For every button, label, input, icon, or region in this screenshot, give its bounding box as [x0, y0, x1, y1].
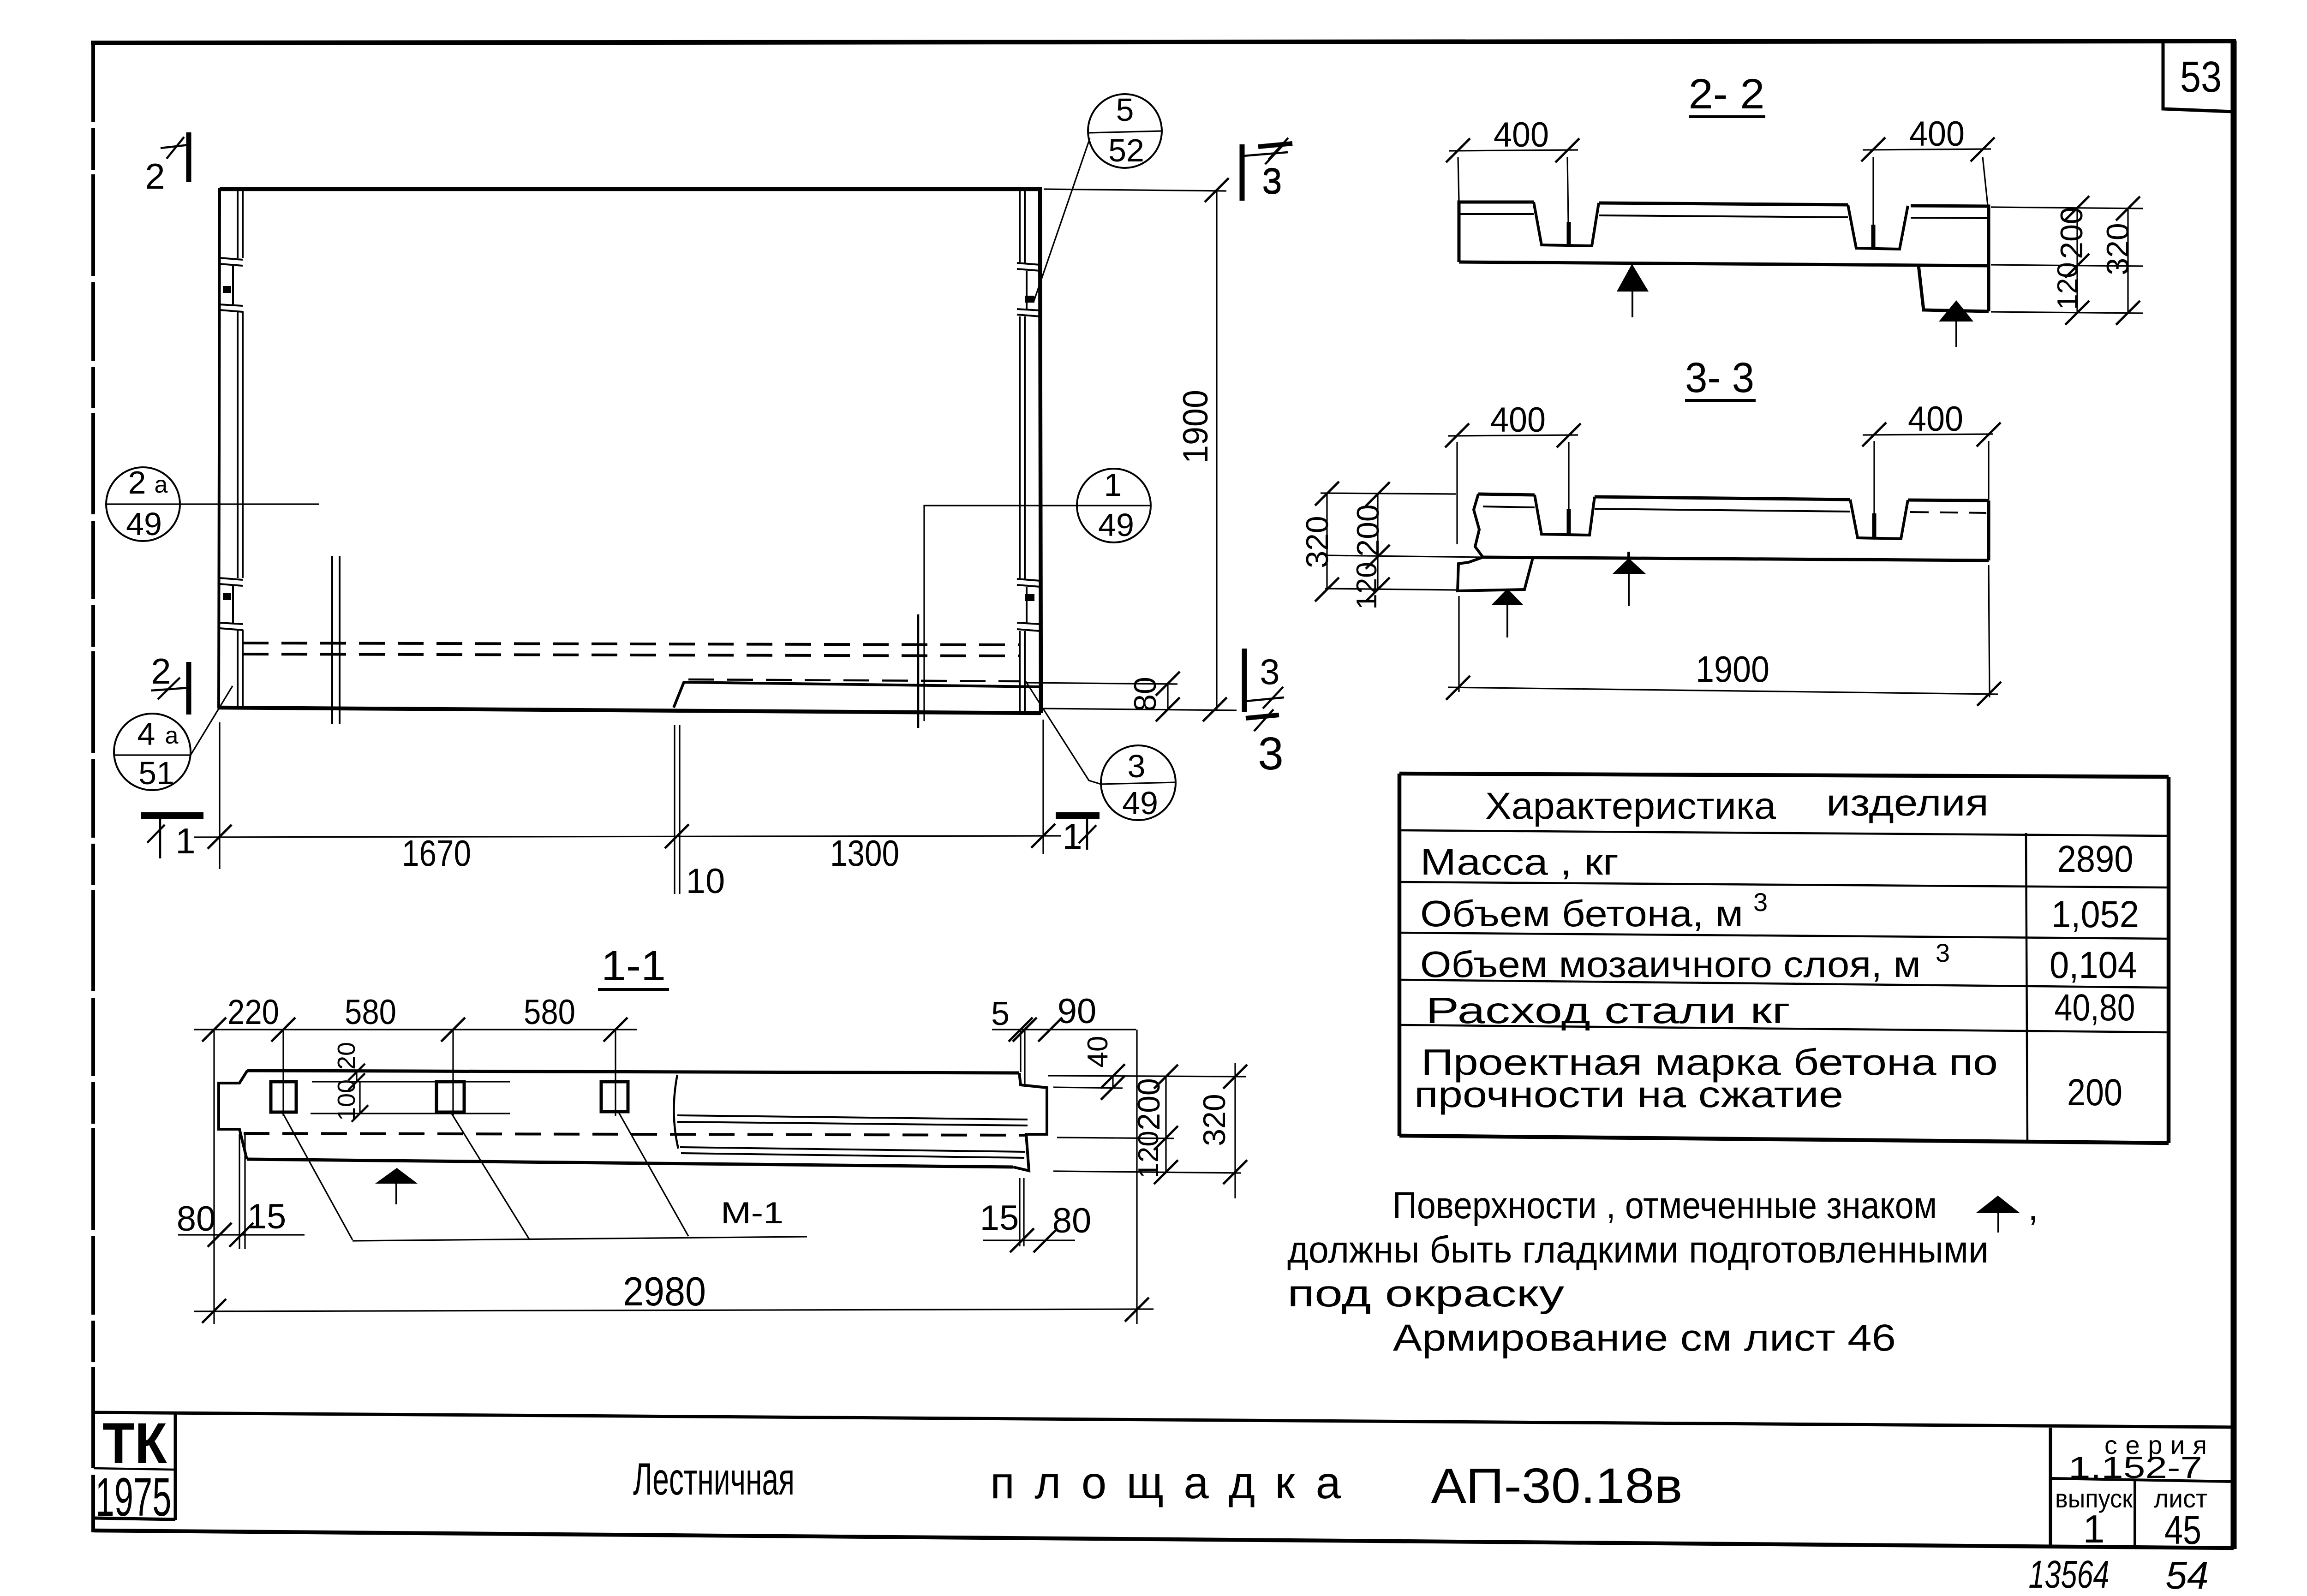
svg-text:49: 49	[1122, 785, 1158, 821]
svg-text:80: 80	[1128, 677, 1163, 712]
svg-text:1900: 1900	[1176, 390, 1215, 464]
section 2-2 right nose	[1919, 265, 1989, 311]
section 1-1 top right dimension line	[992, 1018, 1137, 1324]
section flag 3 left of section 2-2	[1258, 138, 1292, 202]
section 3-3 left break edge	[1474, 494, 1483, 557]
svg-text:1900: 1900	[1696, 649, 1769, 690]
svg-text:1: 1	[2083, 1507, 2104, 1551]
section 3-3 notch 1 anchor tick	[1567, 509, 1571, 534]
section 2-2 dimension 400 right	[1861, 114, 1995, 225]
section 1-1 right dimension 40	[1048, 1036, 1246, 1100]
svg-text:400: 400	[1909, 114, 1965, 154]
left rib lower notch	[220, 578, 243, 630]
section 3-3 support triangle middle	[1613, 558, 1646, 574]
svg-text:1: 1	[1062, 816, 1082, 857]
section 2-2 notch 1	[1534, 202, 1599, 246]
M-1 leader from square 3	[618, 1112, 688, 1236]
plan bottom dimension line	[194, 720, 1061, 1324]
svg-text:2- 2: 2- 2	[1689, 71, 1765, 118]
svg-text:80: 80	[177, 1199, 216, 1239]
section 3-3 notch 2 anchor tick	[1872, 513, 1877, 538]
callout circle 2a/49	[106, 465, 319, 542]
plan bottom step diagonal	[674, 681, 684, 708]
svg-text:200: 200	[1131, 1078, 1166, 1130]
svg-text:2980: 2980	[623, 1268, 706, 1314]
section flag 3 top right	[1242, 143, 1288, 201]
section 3-3 dimension 1900	[1446, 565, 2001, 706]
svg-text:2: 2	[151, 651, 171, 691]
svg-text:580: 580	[524, 993, 575, 1032]
M-1 leader from square 2	[450, 1111, 530, 1240]
note surface mark triangle	[1976, 1196, 2020, 1213]
svg-text:под окраску: под окраску	[1287, 1273, 1564, 1315]
svg-text:,: ,	[2028, 1186, 2038, 1228]
title block top line	[94, 1412, 2233, 1427]
hidden edge dashed line 2	[243, 654, 1020, 656]
svg-text:3: 3	[1128, 748, 1146, 784]
svg-text:3: 3	[1258, 728, 1284, 780]
svg-text:2: 2	[145, 156, 165, 197]
TK box bottom line	[94, 1518, 175, 1519]
svg-text:580: 580	[345, 993, 396, 1032]
callout circle 3/49	[1026, 681, 1176, 821]
section 3-3 left extension lines	[1321, 493, 1482, 590]
hidden edge dashed line 1	[243, 643, 1020, 645]
section 3-3 notch 2	[1850, 500, 1908, 539]
section 2-2 support triangle left	[1617, 264, 1649, 292]
svg-text:400: 400	[1908, 399, 1963, 439]
svg-text:20: 20	[333, 1042, 360, 1070]
svg-text:a: a	[165, 722, 179, 749]
section 1-1 dimension 200/120	[1131, 1065, 1178, 1184]
svg-text:40: 40	[1082, 1036, 1114, 1068]
svg-text:54: 54	[2165, 1554, 2208, 1596]
series box middle line	[2050, 1478, 2233, 1482]
svg-text:13564: 13564	[2029, 1553, 2110, 1596]
section 1-1 bottom line	[247, 1159, 1013, 1167]
table outer border	[1399, 774, 2169, 1143]
svg-text:10: 10	[686, 862, 725, 901]
section 2-2 dimension 320	[2100, 197, 2140, 325]
section 2-2 title underline	[1689, 115, 1765, 118]
section flag 3 bottom right	[1244, 649, 1284, 712]
joint mark lines left	[332, 556, 340, 724]
svg-text:5: 5	[1116, 92, 1134, 128]
svg-text:400: 400	[1494, 115, 1549, 155]
svg-text:Характеристика: Характеристика	[1485, 785, 1776, 827]
svg-text:1: 1	[1104, 467, 1122, 503]
svg-text:Лестничная: Лестничная	[633, 1453, 795, 1504]
svg-text:80: 80	[1052, 1201, 1092, 1240]
frame right border	[2231, 41, 2237, 1549]
section 3-3 dimension 200/120	[1351, 482, 1390, 610]
section 1-1 right end profile	[1013, 1073, 1047, 1171]
title block bottom line / frame bottom	[94, 1530, 2234, 1548]
svg-text:220: 220	[227, 993, 279, 1032]
svg-text:49: 49	[1098, 507, 1134, 543]
svg-text:45: 45	[2164, 1507, 2201, 1553]
section 1-1 dimension 320	[1197, 1063, 1247, 1198]
section 3-3 title underline	[1685, 399, 1756, 402]
svg-text:ТК: ТК	[102, 1411, 167, 1476]
section 3-3 notch 1	[1535, 495, 1595, 535]
section 1-1 left end profile	[219, 1071, 247, 1159]
section 1-1 slab top line	[247, 1071, 1019, 1073]
section 3-3 left nose	[1458, 556, 1533, 591]
section 3-3 support triangle under nose	[1491, 589, 1524, 605]
table header separator	[1399, 830, 2169, 836]
right rib upper notch	[1017, 263, 1040, 316]
section 3-3 slab bottom	[1483, 557, 1989, 560]
svg-text:1975: 1975	[96, 1467, 172, 1528]
svg-text:1,052: 1,052	[2051, 893, 2139, 935]
section 3-3 dimension 320	[1300, 482, 1339, 601]
section 1-1 recess edge lines	[677, 1115, 1028, 1158]
section 1-1 top dimension line	[194, 1018, 637, 1116]
svg-text:320: 320	[1300, 516, 1335, 568]
section flag 2 top	[145, 132, 189, 197]
M-1 leader horizontal line	[353, 1237, 807, 1241]
svg-text:51: 51	[138, 755, 174, 791]
TK box right border	[174, 1412, 177, 1520]
section 2-2 slab outline	[1459, 202, 1989, 311]
section 2-2 notch 2 anchor tick	[1871, 225, 1876, 248]
section 3-3 mosaic layer dashed right	[1910, 512, 1986, 513]
svg-text:прочности на сжатие: прочности на сжатие	[1414, 1074, 1843, 1115]
plan left rib inner line a	[237, 189, 239, 707]
section 2-2 dimension 200/120	[2052, 196, 2089, 325]
section 2-2 notch 2	[1848, 205, 1908, 249]
table row line 2	[1399, 882, 2169, 887]
dimension 1900 right of plan	[1044, 178, 1229, 721]
svg-text:изделия: изделия	[1826, 782, 1989, 824]
plan right rib inner line a	[1019, 189, 1021, 712]
svg-text:1300: 1300	[830, 833, 899, 874]
section 3-3 dimension 400 left	[1445, 400, 1581, 544]
section 3-3 mosaic layer line	[1483, 506, 1850, 512]
table row line 3	[1399, 933, 2169, 939]
frame top border	[91, 41, 2236, 43]
svg-text:Расход стали кг: Расход стали кг	[1426, 990, 1790, 1031]
frame left border	[91, 44, 95, 1532]
svg-text:Объем бетона, м: Объем бетона, м	[1420, 893, 1743, 934]
svg-text:120: 120	[2052, 262, 2084, 310]
section 3-3 dimension 400 right	[1862, 399, 2001, 513]
callout circle 4a/51	[114, 686, 233, 791]
section 1-1 bottom left dimension 80/15	[177, 1134, 305, 1249]
svg-text:200: 200	[2067, 1072, 2122, 1114]
svg-text:49: 49	[126, 506, 162, 542]
svg-text:3: 3	[1936, 938, 1950, 967]
section flag 2 bottom	[151, 651, 189, 715]
dimension 100	[311, 1079, 510, 1122]
svg-text:120: 120	[1133, 1131, 1165, 1178]
svg-text:320: 320	[2100, 223, 2135, 275]
section 1-1 dimension 2980	[194, 1268, 1153, 1323]
plan bottom edge	[218, 708, 1041, 713]
section 3-3 slab top	[1478, 494, 1989, 500]
left rib upper notch	[220, 258, 243, 312]
svg-text:Поверхности , отмеченные зна: Поверхности , отмеченные знаком	[1393, 1185, 1937, 1227]
section 2-2 dimension 400 left	[1446, 115, 1579, 222]
table row line 5	[1399, 1025, 2169, 1032]
svg-text:100: 100	[333, 1079, 360, 1121]
plan right rib inner line b	[1024, 189, 1026, 712]
svg-text:320: 320	[1197, 1094, 1232, 1146]
section flag 3 left-bottom of section 3-3	[1246, 709, 1284, 780]
section flag 1 bottom left	[141, 816, 203, 861]
section 1-1 right extension lines mid and bottom	[1053, 1137, 1241, 1173]
section 1-1 title underline	[598, 988, 669, 991]
surface finish triangle mark	[375, 1168, 418, 1184]
callout circle 1/49	[924, 467, 1151, 721]
svg-text:1670: 1670	[402, 833, 471, 874]
svg-text:120: 120	[1351, 562, 1383, 609]
svg-text:52: 52	[1108, 132, 1144, 168]
svg-text:0,104: 0,104	[2050, 944, 2137, 986]
right rib lower notch	[1017, 579, 1040, 631]
section 2-2 mosaic layer line	[1459, 214, 1987, 218]
section 2-2 notch 1 anchor tick	[1567, 222, 1571, 245]
embedded plate M-1 square 3	[601, 1082, 628, 1112]
svg-text:2890: 2890	[2057, 838, 2134, 880]
sheet number box	[2163, 43, 2232, 112]
table column divider	[2026, 833, 2027, 1143]
svg-text:4: 4	[137, 716, 155, 752]
svg-text:3: 3	[1262, 161, 1282, 202]
series box left border	[2049, 1428, 2052, 1548]
svg-text:a: a	[155, 471, 168, 498]
plan left rib inner line b	[242, 189, 244, 707]
svg-text:200: 200	[2054, 207, 2089, 259]
section 3-3 right edge	[1987, 500, 1990, 560]
embedded plate M-1 square 1	[271, 1082, 296, 1112]
svg-text:53: 53	[2180, 53, 2222, 101]
svg-text:должны быть гладкими подго: должны быть гладкими подготовленными	[1287, 1229, 1989, 1271]
svg-text:400: 400	[1490, 400, 1546, 440]
section 1-1 bottom right dimension 15/80	[980, 1178, 1092, 1252]
svg-text:1-1: 1-1	[601, 942, 666, 989]
svg-text:15: 15	[247, 1197, 287, 1236]
section flag 1 bottom right	[1056, 816, 1100, 857]
plan left rib outer line	[219, 188, 220, 709]
embedded plate M-1 square 2	[436, 1082, 464, 1112]
svg-text:15: 15	[980, 1198, 1019, 1238]
plan right rib outer line	[1040, 189, 1041, 713]
svg-text:1: 1	[175, 821, 195, 861]
svg-text:Армирование см лист 46: Армирование см лист 46	[1393, 1317, 1896, 1359]
svg-text:Масса , кг: Масса , кг	[1420, 841, 1619, 882]
svg-text:40,80: 40,80	[2055, 987, 2135, 1029]
M-1 leader from square 1	[281, 1111, 353, 1240]
svg-text:5: 5	[991, 995, 1010, 1032]
hidden edge dashed line 3	[688, 679, 1020, 681]
dimension 80 right of plan	[1027, 672, 1237, 721]
plan top edge	[220, 187, 1042, 191]
callout circle 5/52	[1034, 92, 1162, 301]
section 2-2 support triangle right	[1939, 300, 1973, 322]
section 1-1 mid dashed line	[244, 1133, 1026, 1135]
section 1-1 recess boundary curve	[674, 1075, 678, 1149]
plan bottom ledge line	[684, 682, 1040, 687]
svg-text:АП-30.18в: АП-30.18в	[1431, 1458, 1683, 1513]
svg-text:3: 3	[1260, 651, 1279, 692]
section 2-2 right extension lines	[1991, 207, 2143, 313]
section 2-2 slab bottom	[1459, 262, 1987, 266]
svg-text:2: 2	[128, 465, 146, 500]
svg-text:3- 3: 3- 3	[1685, 354, 1754, 401]
svg-text:M-1: M-1	[721, 1196, 783, 1230]
svg-text:200: 200	[1351, 504, 1386, 556]
TK box middle line	[94, 1468, 175, 1470]
joint mark line right	[917, 614, 920, 728]
svg-text:90: 90	[1058, 992, 1097, 1031]
series box vertical divider	[2134, 1480, 2136, 1548]
svg-text:3: 3	[1753, 887, 1768, 917]
svg-text:1.152-7: 1.152-7	[2068, 1450, 2202, 1484]
svg-text:Объем мозаичного слоя, м: Объем мозаичного слоя, м	[1420, 944, 1921, 985]
table row line 4	[1399, 980, 2169, 988]
dimension 20	[312, 1042, 510, 1090]
